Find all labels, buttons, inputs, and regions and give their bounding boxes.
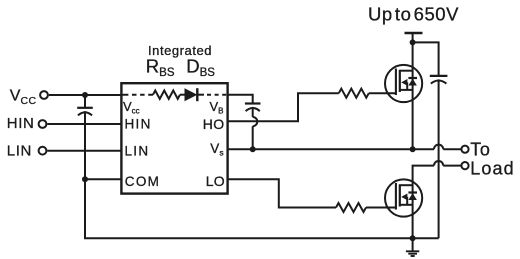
capacitor C1 VCC decoupling xyxy=(77,108,93,116)
resistor R2 low-side gate xyxy=(336,203,366,212)
svg-text:HIN: HIN xyxy=(7,115,35,132)
transistor Q2 low-side MOSFET xyxy=(385,179,422,216)
wire HO to R1 xyxy=(228,93,339,121)
ground xyxy=(406,238,419,256)
terminal Load xyxy=(461,162,468,169)
wire dashed bootstrap path left xyxy=(121,94,153,96)
resistor R1 high-side gate xyxy=(339,89,369,98)
node ground junction xyxy=(410,235,416,241)
terminal LIN xyxy=(39,147,47,155)
svg-text:LO: LO xyxy=(206,173,225,189)
pin label VB (U1) xyxy=(210,99,224,116)
wire dashed bootstrap path right xyxy=(197,94,227,96)
wire CBS lead with hop over HO xyxy=(253,107,258,149)
wire VCC node to cap xyxy=(84,95,86,108)
pin label Vcc (U1) xyxy=(123,99,140,116)
capacitor CBS bootstrap xyxy=(245,104,261,112)
wire Vs hop over bus line xyxy=(434,145,461,150)
wire Q2 channel vertical xyxy=(412,181,414,238)
wire 650V rail to node xyxy=(412,33,414,43)
wire COM to U1 xyxy=(85,178,121,180)
wire gate Q2 lead xyxy=(366,207,396,209)
svg-text:Up to 650V: Up to 650V xyxy=(368,3,459,24)
label RBS xyxy=(146,56,175,80)
label DBS xyxy=(186,56,215,80)
label HIN input xyxy=(7,115,35,132)
wire drain Q1 vertical xyxy=(412,42,414,149)
label VCC input xyxy=(10,88,37,107)
transistor Q1 high-side MOSFET xyxy=(385,65,422,102)
svg-text:To: To xyxy=(470,139,490,159)
wire bus cap to ground rail xyxy=(438,79,440,238)
svg-text:HO: HO xyxy=(203,116,225,132)
diode DBS bootstrap xyxy=(180,88,197,101)
label To xyxy=(470,139,490,159)
wire COM node down to bottom rail xyxy=(85,179,439,238)
wire VCC to U1 xyxy=(49,94,122,96)
wire cap to COM node xyxy=(84,111,86,179)
node CBS to Vs junction xyxy=(250,146,256,152)
svg-text:LIN: LIN xyxy=(125,144,150,159)
pin label HIN (U1) xyxy=(125,117,152,132)
wire LO to R2 xyxy=(228,179,336,207)
terminal VCC xyxy=(40,91,48,99)
terminal HIN xyxy=(39,120,47,128)
label Integrated xyxy=(148,43,212,58)
wire gate Q1 lead xyxy=(369,92,396,94)
node COM junction xyxy=(82,176,88,182)
svg-text:HIN: HIN xyxy=(125,117,152,132)
pin label HO (U1) xyxy=(203,116,225,132)
terminal To xyxy=(461,146,468,153)
pin label LO (U1) xyxy=(206,173,225,189)
resistor RBS bootstrap xyxy=(153,91,180,99)
wire 650V node to bus cap branch xyxy=(413,42,439,75)
capacitor C2 bus xyxy=(430,76,448,84)
label Load xyxy=(470,159,514,179)
svg-text:Load: Load xyxy=(470,159,514,179)
pin label COM (U1) xyxy=(125,174,160,189)
wire LIN to U1 xyxy=(47,150,121,152)
pin label LIN (U1) xyxy=(125,144,150,159)
wire VB to bootstrap cap xyxy=(228,95,253,104)
power rail bar 650V xyxy=(405,32,423,34)
node Vs switch junction xyxy=(410,146,416,152)
label LIN input xyxy=(7,142,32,159)
node VCC cap junction xyxy=(82,92,88,98)
wire HIN to U1 xyxy=(47,123,121,125)
wire Vs line xyxy=(228,148,434,150)
IC U1 gate driver box xyxy=(121,83,227,193)
wire Q2 drain to Load with hop xyxy=(413,161,462,181)
pin label Vs (U1) xyxy=(210,141,223,158)
svg-text:COM: COM xyxy=(125,174,160,189)
label Up to 650V xyxy=(368,3,459,24)
svg-text:LIN: LIN xyxy=(7,142,32,159)
node 650V junction xyxy=(410,39,416,45)
